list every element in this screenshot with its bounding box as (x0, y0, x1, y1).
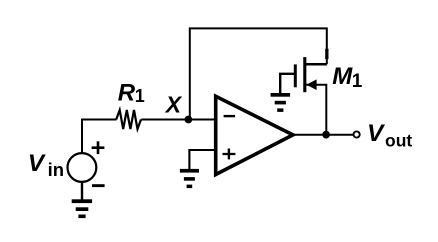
transistor M1 (280, 49, 328, 135)
resistor R1 (116, 110, 141, 129)
svg-text:out: out (385, 131, 412, 151)
label Vout (367, 120, 412, 150)
terminal Vout open circle (354, 131, 360, 137)
wire from resistor to op-amp inverting input through node X (141, 119, 215, 121)
wire from Vin source top to resistor (82, 120, 117, 154)
ground at M1 gate (271, 93, 291, 112)
feedback wire from node X up and over to M1 drain (190, 28, 327, 119)
output node junction dot (322, 131, 330, 139)
label Vin (28, 150, 64, 180)
svg-text:R: R (118, 80, 136, 107)
op-amp U1 (216, 96, 293, 174)
label M1 (332, 63, 363, 92)
svg-text:M: M (332, 63, 353, 90)
ground at op-amp non-inverting input (180, 169, 199, 188)
wire from Vin source bottom to ground (81, 182, 83, 202)
wire from op-amp non-inverting input to ground (189, 150, 215, 170)
svg-text:1: 1 (352, 71, 363, 92)
svg-text:V: V (367, 120, 386, 147)
ground below Vin (72, 199, 92, 218)
node X junction dot (185, 116, 193, 124)
wire from op-amp output to Vout terminal (293, 134, 354, 136)
label R1 (118, 80, 145, 107)
svg-text:in: in (48, 159, 64, 180)
svg-text:1: 1 (135, 86, 145, 106)
svg-text:V: V (28, 150, 47, 177)
voltage source Vin (68, 141, 105, 187)
svg-text:X: X (164, 92, 183, 118)
